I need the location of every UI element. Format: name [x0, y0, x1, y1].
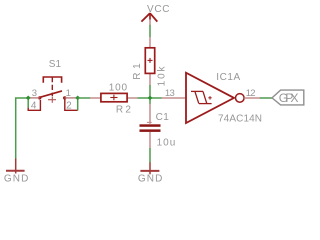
op-amp U1 inverter IC1A triangle: [186, 72, 262, 125]
origin cross: [148, 59, 153, 61]
loop pins 1-2: [65, 99, 78, 110]
switch S1: [26, 59, 80, 111]
svg-text:1: 1: [66, 88, 71, 99]
wire to GPX flag: [260, 97, 272, 99]
actuator bracket: [43, 77, 61, 83]
contact dot pin 3: [38, 96, 41, 99]
output pin wire: [244, 97, 260, 99]
wire node to inverter: [150, 97, 162, 99]
capacitor C1: [140, 104, 176, 149]
origin cross: [48, 99, 56, 101]
VCC symbol: [141, 4, 169, 25]
net flag GPX: [272, 90, 304, 105]
hysteresis symbol: [191, 90, 203, 92]
actuator dashed stem: [51, 77, 53, 96]
wire node to C1: [149, 98, 151, 104]
input pin wire to inverter: [162, 97, 186, 99]
svg-text:100: 100: [109, 83, 128, 94]
plate top: [140, 124, 161, 127]
junction diamond right: [75, 95, 80, 100]
origin cross: [110, 97, 117, 99]
junction diamond left: [26, 95, 31, 100]
body: [145, 48, 154, 74]
ground GND middle: [138, 163, 162, 185]
wire R1 to node: [149, 85, 151, 98]
small origin cross: [208, 97, 211, 99]
pin stub top: [149, 104, 151, 124]
origin tick: [147, 121, 152, 123]
output bubble: [236, 94, 245, 103]
svg-text:10u: 10u: [157, 137, 176, 148]
pin stub left: [90, 97, 101, 99]
loop pins 3-4: [28, 100, 40, 110]
contact dot pin 1: [63, 96, 66, 99]
plate bottom: [140, 129, 161, 132]
pin stub bottom: [149, 73, 151, 85]
wire C1 to ground: [149, 148, 151, 163]
svg-text:C1: C1: [156, 112, 170, 123]
resistor R1: [132, 37, 168, 86]
svg-text:74AC14N: 74AC14N: [218, 114, 262, 125]
svg-text:10k: 10k: [157, 66, 168, 87]
wire R2 to node: [137, 97, 150, 99]
svg-text:S1: S1: [49, 59, 62, 70]
pin stub right: [126, 97, 137, 99]
svg-text:GND: GND: [4, 173, 28, 184]
wire left horizontal and vertical to ground: [16, 98, 29, 160]
pin stub bottom: [149, 132, 151, 148]
svg-text:GPX: GPX: [279, 91, 299, 105]
lever: [40, 91, 63, 98]
wire VCC to R1: [149, 25, 151, 37]
wire switch to R2: [78, 97, 91, 99]
svg-text:VCC: VCC: [147, 4, 170, 15]
svg-text:4: 4: [31, 101, 37, 112]
pin stub top: [149, 37, 151, 48]
pin stub 3: [28, 97, 39, 99]
resistor R2: [90, 83, 137, 116]
pin stub 1: [65, 97, 76, 99]
svg-text:IC1A: IC1A: [216, 72, 240, 83]
node junction diamond: [148, 95, 153, 100]
svg-text:3: 3: [32, 88, 37, 99]
svg-text:GND: GND: [138, 173, 162, 184]
svg-text:2: 2: [66, 101, 72, 112]
body: [101, 93, 127, 101]
ground GND left: [4, 159, 28, 185]
